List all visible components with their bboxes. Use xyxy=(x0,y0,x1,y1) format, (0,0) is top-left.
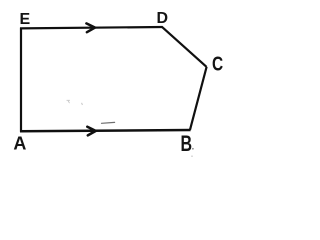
scan noise dash above bottom arrow xyxy=(102,121,115,124)
arrow on side BA (parallel mark) xyxy=(87,127,96,136)
wire side AE (left vertical edge) xyxy=(20,28,22,132)
wire side CB (lower-right diagonal) xyxy=(190,67,207,130)
arrow on side ED (parallel mark) xyxy=(86,23,95,32)
wire side ED (top edge) xyxy=(20,27,162,28)
svg-text:C: C xyxy=(212,52,223,74)
node label C xyxy=(212,52,223,74)
scan noise speck near B xyxy=(192,148,194,150)
svg-text:A: A xyxy=(13,134,26,154)
scan noise speck below B xyxy=(191,156,192,157)
node label B xyxy=(181,131,193,156)
wire side BA (bottom edge) xyxy=(20,130,191,131)
scan noise faint speck 1 xyxy=(67,100,71,103)
svg-text:E: E xyxy=(19,11,30,28)
svg-text:D: D xyxy=(157,10,169,27)
scan noise faint speck 2 xyxy=(81,103,84,105)
wire side DC (upper-right diagonal) xyxy=(162,27,207,67)
svg-text:B: B xyxy=(181,131,193,156)
